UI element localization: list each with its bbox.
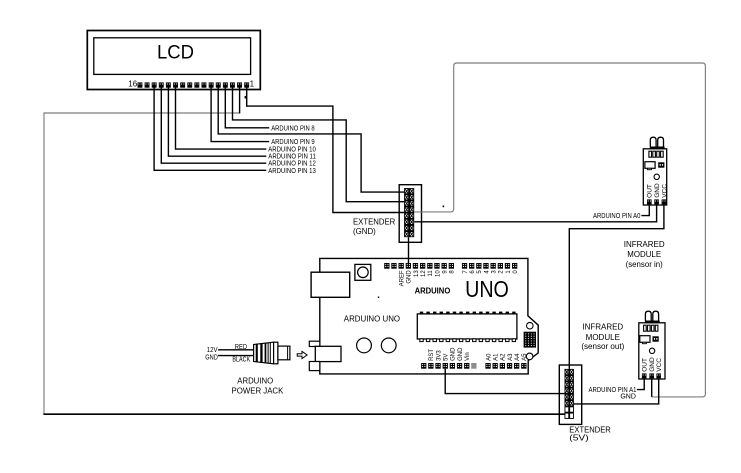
Arduino analog header pins A0..A5 [485, 363, 526, 369]
svg-text:A3: A3 [508, 353, 514, 361]
junction dot below LCD pin1 [245, 96, 247, 99]
svg-text:GND: GND [654, 183, 661, 198]
svg-text:RST: RST [429, 349, 435, 361]
svg-text:16: 16 [128, 80, 137, 89]
svg-text:ARDUINO PIN 13: ARDUINO PIN 13 [268, 168, 316, 175]
Arduino digital header pins (SCL..8) [384, 263, 454, 269]
DC barrel plug body [254, 342, 274, 364]
svg-text:EXTENDER: EXTENDER [353, 216, 395, 226]
IR2 (sensor out) receiver LED [653, 311, 659, 320]
svg-text:A4: A4 [515, 353, 521, 361]
capacitor C1 [357, 338, 372, 353]
ICSP pin grid [524, 332, 536, 348]
barrel plug tip [278, 346, 290, 360]
LCD pin header pins 16..1 [138, 82, 250, 87]
wire IR1 OUT to net A0 [641, 204, 649, 215]
Arduino UNO board U1 outline [320, 258, 538, 374]
svg-text:ARDUINO PIN 9: ARDUINO PIN 9 [271, 139, 315, 146]
svg-text:GND: GND [649, 357, 656, 372]
Arduino power header unused pin (gray) [471, 363, 476, 369]
wire Arduino 5V pin to 5V extender [445, 369, 564, 394]
IR1 (sensor in) emitter LED [650, 137, 656, 146]
IR2 (sensor out) LED base bar [645, 321, 660, 323]
mounting hole bottom [526, 353, 533, 360]
IR2 (sensor out) pins OUT GND VCC [642, 373, 661, 378]
wire IR2 VCC to 5V extender [574, 378, 659, 404]
svg-text:POWER JACK: POWER JACK [232, 385, 284, 395]
wire LCD pin14 D7 to net ARDUINO PIN 13 [154, 87, 266, 170]
IR1 (sensor in) trimmer component [658, 162, 664, 167]
IC top pins [420, 312, 516, 315]
Arduino digital header pins 7..0 [462, 263, 517, 269]
extender 5V connector J2 outline [559, 365, 581, 424]
IR1 (sensor in) comparator IC [645, 162, 655, 169]
wire LCD pin11 D4 to net ARDUINO PIN 10 [176, 87, 267, 149]
IR2 (sensor out) emitter LED [645, 311, 651, 320]
wire LCD pin4 RS to net ARDUINO PIN 8 [225, 87, 269, 128]
IR2 (sensor out) potentiometer circle [649, 348, 654, 353]
wire LCD pin6 E to net ARDUINO PIN 9 [211, 87, 269, 141]
LCD display window [94, 38, 251, 75]
svg-text:ARDUINO PIN 10: ARDUINO PIN 10 [268, 147, 316, 154]
svg-text:13: 13 [414, 270, 420, 277]
IR2 (sensor out) comparator IC [640, 336, 650, 343]
stray dot on board [378, 297, 379, 298]
svg-text:(GND): (GND) [353, 226, 376, 236]
svg-text:VCC: VCC [661, 184, 668, 198]
svg-text:ARDUINO: ARDUINO [415, 286, 451, 296]
svg-text:12V: 12V [207, 347, 218, 354]
wire GND loop gray: extender GND right side around top-right to sensor-out GND [414, 63, 705, 397]
svg-text:ARDUINO PIN 11: ARDUINO PIN 11 [268, 154, 316, 161]
svg-text:Vin: Vin [465, 352, 471, 361]
IR1 (sensor in) receiver LED [658, 137, 664, 146]
svg-text:LCD: LCD [157, 42, 194, 64]
svg-text:(5V): (5V) [569, 432, 589, 442]
IR2 (sensor out) IC notch [642, 342, 646, 343]
svg-text:(sensor in): (sensor in) [626, 259, 663, 269]
svg-text:A2: A2 [501, 353, 507, 361]
svg-text:A0: A0 [486, 353, 492, 361]
wire GND black lead [218, 355, 254, 357]
svg-text:INFRARED: INFRARED [624, 239, 665, 249]
svg-text:MODULE: MODULE [627, 249, 661, 259]
wire LCD pin12 D5 to net ARDUINO PIN 11 [168, 87, 266, 156]
svg-text:ARDUINO: ARDUINO [237, 376, 273, 386]
extender 5V pin block 2x8 [565, 369, 574, 419]
capacitor C2 [381, 338, 396, 353]
wire IR1 VCC to 5V extender [569, 204, 664, 369]
barrel plug tip line [287, 346, 289, 360]
svg-text:OUT: OUT [642, 358, 649, 372]
svg-text:BLACK: BLACK [232, 357, 250, 364]
svg-text:(sensor out): (sensor out) [581, 341, 624, 351]
IR2 (sensor out) trimmer component [653, 336, 659, 341]
IR1 (sensor in) potentiometer circle [654, 174, 659, 179]
stray mark near GND extender [443, 206, 445, 208]
IR1 (sensor in) IC notch [648, 168, 652, 169]
wire LCD pin13 D6 to net ARDUINO PIN 12 [161, 87, 266, 163]
svg-text:ARDUINO UNO: ARDUINO UNO [344, 314, 401, 324]
board power jack socket top tab [309, 341, 320, 346]
svg-text:10: 10 [435, 270, 441, 277]
wire LCD pin3 V0 to GND extender [233, 87, 405, 201]
LCD module U-LCD outer body [87, 31, 260, 90]
extender GND connector J1 outline [399, 185, 421, 243]
insert direction arrow [297, 351, 307, 358]
svg-text:12: 12 [421, 270, 427, 277]
svg-text:OUT: OUT [647, 184, 654, 198]
svg-text:UNO: UNO [465, 276, 509, 302]
infrared module IR1 (sensor in) body [643, 149, 666, 205]
IR1 (sensor in) header pads [649, 151, 663, 157]
Arduino power header pins (IOREF..VIN) [421, 363, 469, 369]
IR1 (sensor in) LED base bar [650, 147, 665, 149]
reset button body [355, 264, 371, 280]
svg-text:AREF: AREF [399, 270, 405, 286]
wire LCD pin5 RW to GND extender [218, 87, 404, 192]
svg-text:11: 11 [428, 270, 434, 277]
infrared module IR2 (sensor out) body [639, 323, 665, 379]
wire LCD pin1 VSS to GND extender [247, 87, 404, 212]
svg-text:3V3: 3V3 [436, 350, 442, 361]
wire 12V red lead [218, 349, 254, 351]
wire IR1 GND to GND extender [414, 204, 656, 222]
barrel plug grip stripes [256, 343, 271, 364]
svg-text:5V: 5V [444, 354, 450, 361]
svg-text:GND: GND [458, 347, 464, 361]
wire 5V loop bottom black segment to 5V extender [43, 413, 564, 415]
svg-text:GND: GND [407, 270, 413, 284]
board power jack socket body [315, 346, 341, 361]
svg-text:ARDUINO PIN A0: ARDUINO PIN A0 [593, 213, 640, 220]
IR1 (sensor in) pins OUT GND VCC [647, 199, 666, 204]
svg-text:INFRARED: INFRARED [582, 322, 623, 332]
wire LCD pin2 VDD stub [239, 87, 241, 113]
reset button cap [358, 267, 369, 278]
IR2 (sensor out) header pads [644, 325, 658, 331]
wire IR2 OUT to net A1 [637, 378, 644, 389]
svg-text:A1: A1 [493, 353, 499, 361]
microcontroller IC ATmega body [417, 314, 517, 339]
svg-text:1: 1 [250, 80, 255, 89]
extender GND pin block 2x8 [404, 188, 414, 237]
svg-text:GND: GND [451, 347, 457, 361]
board power jack socket bottom tab [309, 362, 320, 371]
USB connector [311, 272, 350, 297]
wire GND extender to Arduino GND pin [408, 237, 410, 263]
wire 5V loop left gray segment [44, 113, 240, 414]
barrel plug collar [274, 342, 278, 364]
svg-text:ARDUINO PIN 12: ARDUINO PIN 12 [268, 161, 316, 168]
wire IR2 GND black stub to gray GND loop [651, 378, 653, 397]
mounting hole top [527, 322, 534, 329]
svg-text:VCC: VCC [656, 358, 663, 372]
IC bottom pins [420, 339, 516, 342]
svg-text:GND: GND [205, 354, 218, 361]
svg-text:ARDUINO PIN 8: ARDUINO PIN 8 [271, 125, 315, 132]
svg-text:GND: GND [620, 394, 636, 401]
